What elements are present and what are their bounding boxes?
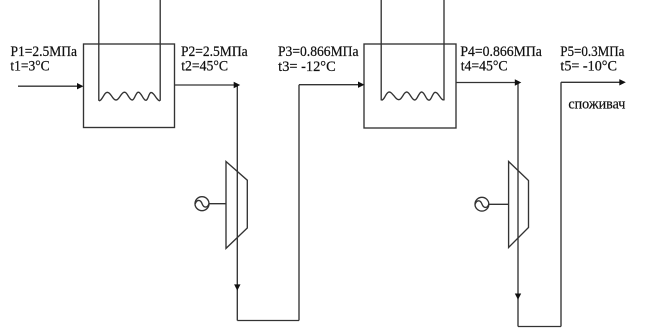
- svg-text:споживач: споживач: [568, 96, 625, 112]
- heat exchanger E2 liquid wave: [382, 92, 444, 100]
- arrowhead E1 outlet corner: [234, 82, 241, 88]
- motor M1 circle: [195, 197, 209, 211]
- wire bottom horizontal 1: [237, 320, 299, 322]
- heat exchanger E2 inner tube right wall: [443, 0, 445, 100]
- arrowhead down on V1 branch: [234, 284, 240, 290]
- heat exchanger E2 shell: [364, 44, 456, 128]
- heat exchanger E1 inner tube left wall: [98, 0, 100, 101]
- svg-text:t2=45°C: t2=45°C: [181, 59, 228, 75]
- wire inlet to E1: [18, 85, 78, 87]
- heat exchanger E1 shell: [84, 44, 175, 128]
- wire into E2: [299, 84, 359, 86]
- throttle valve V1 body: [226, 162, 247, 249]
- arrowhead down on V2 branch: [515, 294, 521, 300]
- wire to consumer: [561, 81, 620, 83]
- motor M2 circle: [475, 197, 489, 211]
- motor M2 link to V2: [489, 203, 509, 205]
- wire vertical up to E2 level: [298, 85, 300, 321]
- motor M1 sine symbol: [195, 200, 209, 207]
- svg-text:P3=0.866МПа: P3=0.866МПа: [278, 44, 359, 60]
- wire bottom horizontal 2: [518, 326, 561, 328]
- heat exchanger E1 inner tube right wall: [159, 0, 161, 101]
- svg-text:t4=45°C: t4=45°C: [461, 59, 508, 75]
- wire vertical up to consumer level: [560, 82, 562, 326]
- arrowhead to consumer: [619, 79, 626, 85]
- svg-text:t1=3°C: t1=3°C: [10, 59, 49, 75]
- svg-text:t5= -10°C: t5= -10°C: [560, 59, 617, 75]
- arrowhead into E2: [358, 82, 365, 88]
- arrowhead into E1: [77, 83, 84, 89]
- wire E1 outlet to corner: [175, 84, 235, 86]
- wire vertical down through valve V1: [236, 85, 238, 321]
- heat exchanger E2 inner tube left wall: [380, 0, 382, 100]
- wire vertical down through valve V2: [517, 83, 519, 327]
- motor M2 sine symbol: [475, 201, 489, 208]
- svg-text:P5=0.3МПа: P5=0.3МПа: [560, 44, 625, 60]
- wire E2 outlet to corner: [456, 82, 515, 84]
- arrowhead E2 outlet corner: [515, 79, 522, 85]
- throttle valve V2 body: [509, 162, 529, 248]
- svg-text:t3= -12°C: t3= -12°C: [278, 59, 336, 75]
- motor M1 link to V1: [209, 203, 226, 205]
- heat exchanger E1 liquid wave: [99, 92, 160, 101]
